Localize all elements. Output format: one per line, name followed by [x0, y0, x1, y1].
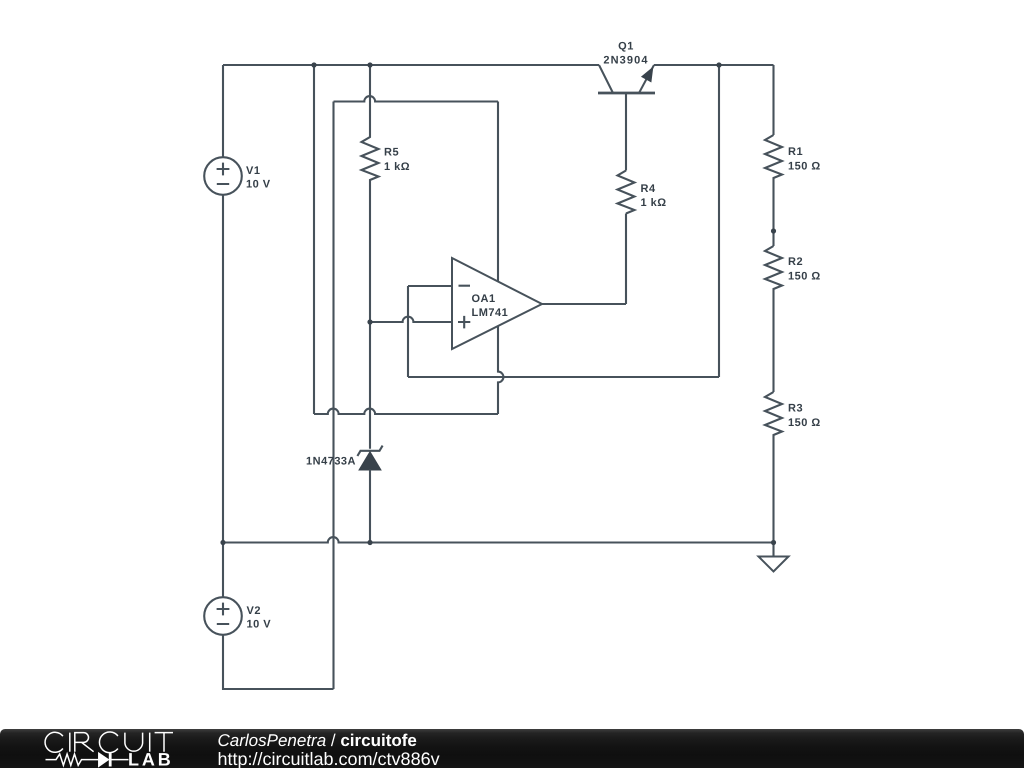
svg-text:10 V: 10 V	[246, 178, 271, 190]
junction node dot on ground rail at x=223	[220, 540, 225, 545]
ground stub	[772, 543, 774, 557]
label V2 10 V	[247, 605, 272, 630]
logo resistor zigzag and diode	[46, 754, 99, 765]
zener diode 1N4733A anode triangle	[360, 453, 380, 470]
wire box top y=101 with hop over R5 line	[334, 96, 499, 101]
resistor R1 column top wire	[772, 65, 774, 135]
wire x=314 vertical	[313, 65, 315, 414]
svg-text:150 Ω: 150 Ω	[788, 271, 821, 283]
junction node dot on top rail at x=314	[311, 62, 316, 67]
wire V1 bottom to ground rail	[222, 195, 224, 543]
label OA1 LM741	[472, 293, 509, 319]
resistor R1	[765, 135, 782, 246]
svg-text:OA1: OA1	[472, 293, 496, 305]
voltage source V1	[204, 157, 242, 195]
svg-text:R2: R2	[788, 256, 803, 268]
svg-text:150 Ω: 150 Ω	[788, 160, 821, 172]
junction node dot at ground node	[771, 540, 776, 545]
resistor R5 line with zigzag	[362, 65, 379, 449]
svg-text:R3: R3	[788, 403, 803, 415]
resistor R2	[765, 246, 782, 392]
wire left loop vertical x=333	[332, 102, 334, 690]
svg-text:150 Ω: 150 Ω	[788, 417, 821, 429]
wire zener to ground rail	[369, 470, 371, 543]
CircuitLab logo	[0, 729, 190, 768]
svg-text:Q1: Q1	[618, 40, 634, 52]
transistor Q1 emitter arrow	[643, 69, 652, 81]
op-amp OA1 plus glyph	[458, 316, 470, 329]
svg-text:2N3904: 2N3904	[603, 55, 648, 67]
svg-text:V1: V1	[246, 165, 260, 177]
resistor R3	[765, 392, 782, 543]
svg-text:1N4733A: 1N4733A	[306, 456, 356, 468]
transistor Q1 base bar	[598, 92, 655, 95]
wire op-amp output	[542, 303, 626, 305]
wire R4 to Q1 base	[625, 93, 627, 171]
ground symbol	[759, 557, 789, 572]
label R2 150 Ohm	[788, 256, 821, 283]
zener diode 1N4733A cathode bar	[357, 446, 382, 456]
wire y=414 from x=314 to x=498 with hops	[314, 409, 498, 414]
wire op-amp minus input	[408, 285, 452, 287]
junction node dot on top rail at x=719	[716, 62, 721, 67]
junction node dot on ground rail at x=370	[367, 540, 372, 545]
footer bar	[0, 729, 1024, 768]
svg-text:R1: R1	[788, 146, 803, 158]
svg-text:R5: R5	[384, 147, 399, 159]
op-amp OA1 minus glyph	[459, 285, 471, 287]
svg-text:LM741: LM741	[472, 307, 509, 319]
junction node dot between R1 and R2	[771, 228, 776, 233]
svg-text:10 V: 10 V	[247, 619, 272, 631]
wire top rail right segment	[654, 64, 774, 66]
wire feedback vertical x=719 to top rail	[718, 65, 720, 377]
wire top rail left segment	[223, 64, 599, 66]
wire minus feedback vertical x=408	[407, 286, 409, 377]
wire box right vertical x=498 with hop over feedback	[498, 102, 503, 415]
svg-text:1 kΩ: 1 kΩ	[384, 161, 410, 173]
junction node dot on top rail at x=370	[367, 62, 372, 67]
voltage source V2	[204, 597, 242, 635]
wire V2 bottom loop	[223, 635, 334, 689]
transistor Q1 emitter diagonal	[639, 65, 654, 93]
op-amp OA1 body	[452, 258, 542, 349]
wire V1 top stub	[222, 65, 224, 157]
footer attribution text	[218, 732, 417, 749]
junction node dot at op-amp plus input tap	[367, 319, 372, 324]
svg-text:V2: V2	[247, 605, 261, 617]
wire op-amp plus input with hop over x=408	[370, 317, 452, 322]
svg-text:R4: R4	[641, 183, 656, 195]
label R1 150 Ohm	[788, 146, 821, 172]
label 1N4733A	[306, 456, 356, 468]
label R4 1 kOhm	[641, 183, 667, 209]
label Q1 2N3904	[603, 40, 648, 66]
transistor Q1 collector diagonal	[599, 65, 613, 93]
label R3 150 Ohm	[788, 403, 821, 429]
resistor R4	[618, 171, 635, 214]
svg-text:1 kΩ: 1 kΩ	[641, 197, 667, 209]
label R5 1 kOhm	[384, 147, 410, 174]
wire ground rail y=542.5 with hop over x=333	[223, 537, 774, 542]
logo word CIRCUIT	[45, 732, 173, 753]
svg-text:LAB: LAB	[128, 750, 174, 768]
wire V2 top stub	[222, 543, 224, 598]
wire feedback horizontal y=377	[408, 376, 719, 378]
wire output up to R4	[625, 214, 627, 305]
label V1 10 V	[246, 165, 271, 190]
